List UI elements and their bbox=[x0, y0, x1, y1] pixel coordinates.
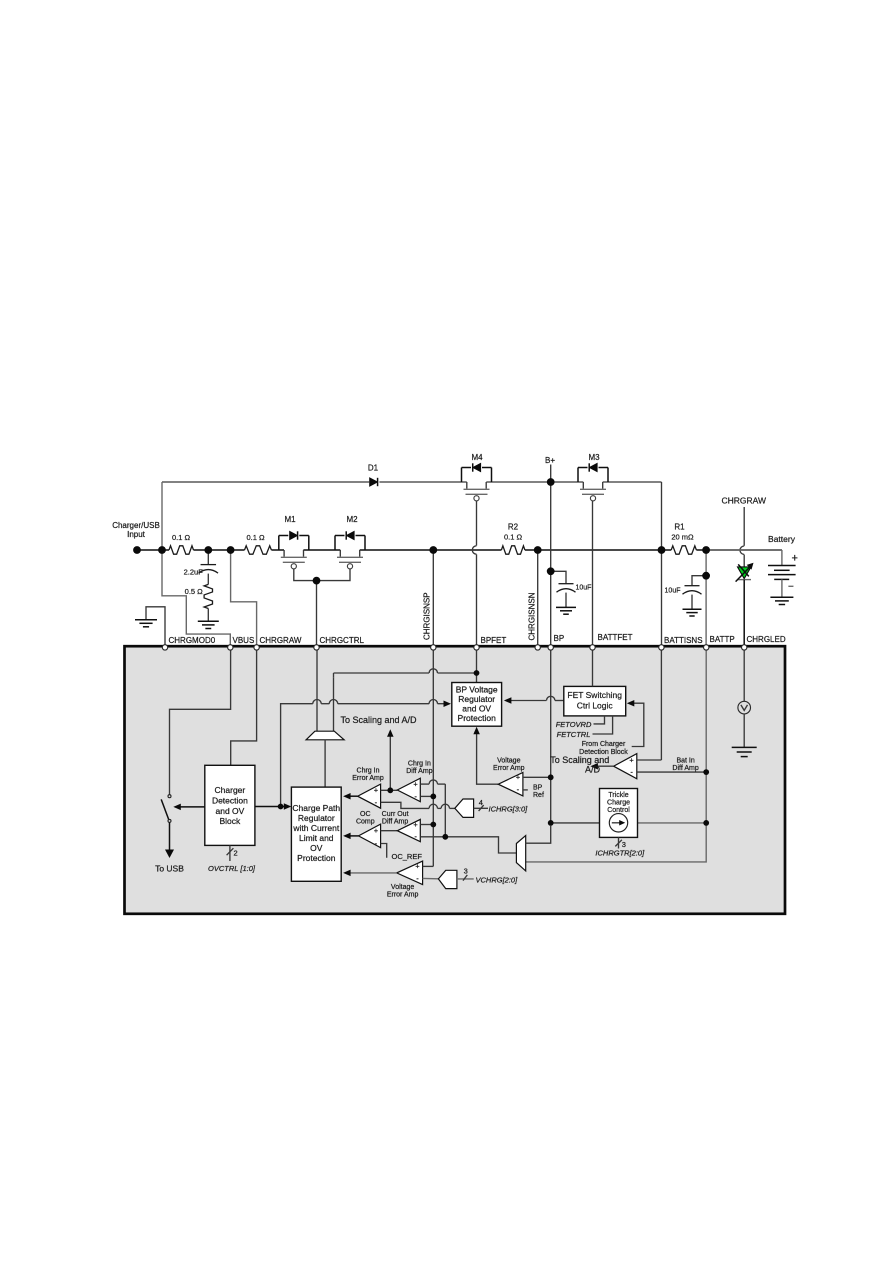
svg-text:Regulator: Regulator bbox=[298, 813, 335, 823]
svg-text:D1: D1 bbox=[368, 463, 379, 472]
svg-text:OVCTRL [1:0]: OVCTRL [1:0] bbox=[208, 864, 256, 873]
svg-text:Charger: Charger bbox=[215, 785, 246, 795]
svg-text:A/D: A/D bbox=[585, 764, 601, 774]
svg-text:FETOVRD: FETOVRD bbox=[556, 720, 592, 729]
svg-text:Ctrl Logic: Ctrl Logic bbox=[577, 700, 614, 710]
svg-text:and OV: and OV bbox=[462, 703, 491, 713]
svg-text:+: + bbox=[415, 862, 420, 871]
svg-text:OC_REF: OC_REF bbox=[392, 852, 423, 861]
svg-text:B+: B+ bbox=[545, 456, 555, 465]
svg-text:Charge: Charge bbox=[607, 799, 630, 806]
svg-text:0.1 Ω: 0.1 Ω bbox=[504, 533, 523, 542]
svg-text:R2: R2 bbox=[508, 522, 519, 531]
svg-text:Protection: Protection bbox=[297, 853, 336, 863]
svg-text:Diff Amp: Diff Amp bbox=[672, 765, 698, 772]
svg-text:0.1 Ω: 0.1 Ω bbox=[246, 533, 265, 542]
svg-text:CHRGISNSN: CHRGISNSN bbox=[527, 592, 536, 640]
svg-text:2: 2 bbox=[234, 849, 238, 858]
svg-text:FET Switching: FET Switching bbox=[567, 690, 622, 700]
svg-text:FETCTRL: FETCTRL bbox=[557, 730, 591, 739]
svg-text:To Scaling and: To Scaling and bbox=[550, 755, 609, 765]
svg-text:Trickle: Trickle bbox=[608, 792, 628, 799]
svg-text:Limit and: Limit and bbox=[299, 833, 334, 843]
svg-text:BATTFET: BATTFET bbox=[598, 633, 633, 642]
svg-text:From Charger: From Charger bbox=[582, 741, 626, 748]
svg-text:ICHRG[3:0]: ICHRG[3:0] bbox=[489, 804, 529, 813]
svg-text:+: + bbox=[413, 820, 418, 829]
svg-text:Detection: Detection bbox=[212, 795, 248, 805]
svg-text:Control: Control bbox=[607, 807, 630, 814]
svg-text:BPFET: BPFET bbox=[481, 636, 507, 645]
svg-text:BATTISNS: BATTISNS bbox=[664, 636, 703, 645]
svg-text:CHRGMOD0: CHRGMOD0 bbox=[169, 636, 216, 645]
svg-text:M3: M3 bbox=[588, 453, 600, 462]
svg-text:M2: M2 bbox=[346, 515, 358, 524]
svg-text:0.5 Ω: 0.5 Ω bbox=[185, 587, 204, 596]
svg-text:CHRGRAW: CHRGRAW bbox=[722, 496, 767, 506]
svg-text:+: + bbox=[374, 786, 379, 795]
svg-text:20 mΩ: 20 mΩ bbox=[671, 533, 694, 542]
svg-text:M1: M1 bbox=[284, 515, 296, 524]
svg-text:Diff Amp: Diff Amp bbox=[382, 819, 408, 826]
svg-text:+: + bbox=[413, 779, 418, 788]
svg-text:Ref: Ref bbox=[533, 792, 544, 799]
svg-text:Bat In: Bat In bbox=[676, 758, 694, 765]
svg-text:M4: M4 bbox=[471, 453, 483, 462]
svg-text:BP: BP bbox=[554, 634, 565, 643]
svg-text:BP: BP bbox=[533, 784, 543, 791]
svg-text:Curr Out: Curr Out bbox=[382, 811, 409, 818]
svg-text:Chrg In: Chrg In bbox=[357, 768, 380, 775]
svg-text:OV: OV bbox=[310, 843, 323, 853]
svg-text:+: + bbox=[792, 553, 798, 565]
svg-text:3: 3 bbox=[464, 866, 468, 875]
svg-text:CHRGISNSP: CHRGISNSP bbox=[422, 592, 431, 640]
svg-text:4: 4 bbox=[479, 798, 483, 807]
svg-text:ICHRGTR[2:0]: ICHRGTR[2:0] bbox=[595, 848, 645, 857]
svg-text:Charge Path: Charge Path bbox=[292, 803, 340, 813]
svg-text:Diff Amp: Diff Amp bbox=[406, 768, 432, 775]
svg-text:VBUS: VBUS bbox=[233, 636, 255, 645]
svg-text:Error Amp: Error Amp bbox=[352, 775, 384, 782]
svg-text:Voltage: Voltage bbox=[391, 884, 414, 891]
svg-text:Comp: Comp bbox=[356, 819, 375, 826]
svg-text:with Current: with Current bbox=[292, 823, 339, 833]
svg-text:0.1 Ω: 0.1 Ω bbox=[172, 533, 191, 542]
svg-text:Error Amp: Error Amp bbox=[387, 892, 419, 899]
svg-text:OC: OC bbox=[360, 811, 371, 818]
svg-text:BATTP: BATTP bbox=[710, 635, 735, 644]
svg-text:Battery: Battery bbox=[768, 534, 796, 544]
svg-text:CHRGCTRL: CHRGCTRL bbox=[320, 636, 365, 645]
svg-text:To USB: To USB bbox=[155, 864, 184, 874]
svg-text:Chrg In: Chrg In bbox=[408, 761, 431, 768]
svg-text:Regulator: Regulator bbox=[458, 694, 495, 704]
svg-text:Error Amp: Error Amp bbox=[493, 765, 525, 772]
svg-text:VCHRG[2:0]: VCHRG[2:0] bbox=[476, 875, 519, 884]
svg-text:Voltage: Voltage bbox=[497, 757, 520, 764]
svg-text:+: + bbox=[629, 755, 634, 764]
svg-text:10uF: 10uF bbox=[665, 587, 681, 594]
svg-text:Input: Input bbox=[127, 530, 146, 539]
svg-text:Protection: Protection bbox=[458, 713, 497, 723]
svg-text:10uF: 10uF bbox=[576, 584, 592, 591]
svg-text:−: − bbox=[788, 581, 794, 592]
svg-text:2.2uF: 2.2uF bbox=[184, 568, 204, 577]
svg-text:+: + bbox=[374, 826, 379, 835]
svg-text:BP Voltage: BP Voltage bbox=[456, 684, 498, 694]
svg-text:To Scaling and A/D: To Scaling and A/D bbox=[340, 715, 417, 725]
svg-text:R1: R1 bbox=[674, 522, 685, 531]
svg-text:CHRGRAW: CHRGRAW bbox=[260, 636, 302, 645]
svg-text:+: + bbox=[516, 773, 521, 782]
svg-text:and OV: and OV bbox=[215, 806, 244, 816]
svg-text:CHRGLED: CHRGLED bbox=[747, 635, 786, 644]
svg-text:Block: Block bbox=[220, 816, 242, 826]
svg-text:Charger/USB: Charger/USB bbox=[112, 521, 160, 530]
